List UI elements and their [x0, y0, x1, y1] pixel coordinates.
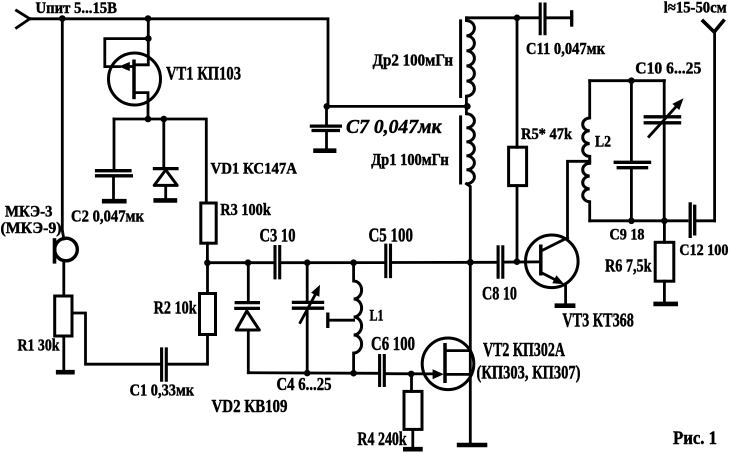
- choke Др2 100мГн: [461, 18, 475, 107]
- node: R4/VT2 gate junction: [408, 371, 415, 378]
- wire: mic to R1: [62, 261, 65, 296]
- node: VT1/C2 rail junction: [145, 116, 152, 123]
- resistor R1: [55, 296, 72, 336]
- transistor VT1 КП103: [105, 18, 161, 120]
- svg-text:R1 30k: R1 30k: [18, 336, 60, 355]
- node: choke midpoint junction: [464, 103, 471, 110]
- node: VD1 junction: [161, 116, 168, 123]
- wire: R1 tap to C1: [72, 313, 160, 364]
- capacitor C9: [614, 81, 652, 221]
- svg-text:(МКЭ-9): (МКЭ-9): [1, 220, 62, 237]
- svg-text:МКЭ-3: МКЭ-3: [5, 204, 53, 221]
- svg-text:Др2 100мГн: Др2 100мГн: [373, 51, 454, 70]
- node: R6 top junction: [661, 218, 668, 225]
- node: C9 bottom junction: [628, 218, 635, 225]
- wire: R2 to mid node: [206, 263, 209, 294]
- antenna: [702, 20, 725, 221]
- choke Др1 100мГн: [461, 106, 475, 184]
- svg-text:C7 0,047мк: C7 0,047мк: [346, 116, 442, 138]
- wire: C7 node to chokes: [328, 105, 468, 108]
- node: supply/VT1 junction: [145, 15, 152, 22]
- resistor R5: [509, 18, 527, 262]
- node: C4 top junction: [304, 259, 311, 266]
- capacitor C2: [95, 119, 133, 199]
- tank bottom rail: [590, 219, 687, 222]
- tank top rail: [590, 79, 665, 82]
- ground under R1: [56, 370, 75, 375]
- svg-text:Рис. 1: Рис. 1: [673, 428, 717, 449]
- svg-text:C9 18: C9 18: [610, 227, 645, 244]
- capacitor C12: [690, 202, 695, 238]
- svg-text:VD2 КВ109: VD2 КВ109: [212, 396, 288, 416]
- trimmer capacitor C10: [644, 81, 684, 221]
- transistor VT2 КП302А: [422, 338, 474, 390]
- wire: mic branch: [62, 19, 64, 239]
- svg-text:C5 100: C5 100: [369, 225, 414, 247]
- svg-text:VD1 КС147А: VD1 КС147А: [211, 161, 298, 178]
- node: supply/mic junction: [59, 15, 66, 22]
- node: C7 junction: [324, 103, 331, 110]
- svg-text:R6 7,5k: R6 7,5k: [605, 256, 652, 276]
- svg-text:VT3 КТ368: VT3 КТ368: [562, 310, 634, 332]
- node: R5 top junction: [514, 14, 521, 21]
- svg-text:R5* 47k: R5* 47k: [521, 126, 572, 143]
- power input arrow: [17, 11, 30, 28]
- node: R5/VT3 base junction: [514, 258, 521, 265]
- ground under C7: [313, 148, 336, 153]
- svg-text:R4 240k: R4 240k: [357, 430, 407, 450]
- svg-text:C10 6...25: C10 6...25: [635, 59, 701, 78]
- ground under R6: [653, 302, 678, 307]
- microphone BM1 МКЭ-3: [55, 238, 78, 261]
- inductor L1 with tap: [328, 263, 362, 373]
- svg-text:R3 100k: R3 100k: [220, 200, 271, 219]
- capacitor C7: [310, 106, 342, 148]
- node: L1 top junction: [350, 259, 357, 266]
- zener diode VD1 КС147А: [153, 119, 179, 198]
- svg-text:(КП303, КП307): (КП303, КП307): [477, 363, 581, 384]
- svg-text:C8 10: C8 10: [482, 284, 517, 305]
- wire: +supply rail with corner down to C7 node: [30, 19, 328, 107]
- node: VD2 junction: [245, 259, 252, 266]
- svg-text:VT1 КП103: VT1 КП103: [166, 64, 241, 85]
- node: rail/mid wire crossing: [467, 259, 474, 266]
- svg-text:C6 100: C6 100: [371, 334, 415, 355]
- capacitor C3: [275, 245, 280, 279]
- wire: VT3 collector to L2 tap: [568, 161, 590, 238]
- wire: right top rail: [466, 16, 538, 19]
- svg-text:R2 10k: R2 10k: [154, 298, 197, 318]
- wire: drain rail (Др1 to VT2 to ground): [466, 184, 470, 442]
- svg-text:Uпит 5...15В: Uпит 5...15В: [36, 0, 118, 17]
- capacitor C6: [380, 354, 385, 387]
- svg-text:C1 0,33мк: C1 0,33мк: [130, 381, 195, 400]
- node: C4 bottom junction: [304, 370, 311, 377]
- svg-text:Др1 100мГн: Др1 100мГн: [371, 150, 449, 169]
- node: L1 bottom junction: [350, 370, 357, 377]
- resistor R3: [201, 203, 216, 243]
- capacitor C11: [540, 3, 545, 36]
- svg-text:C11 0,047мк: C11 0,047мк: [526, 39, 605, 58]
- svg-text:C2 0,047мк: C2 0,047мк: [71, 206, 144, 225]
- capacitor C5: [386, 244, 391, 279]
- svg-text:C12 100: C12 100: [679, 242, 728, 259]
- svg-text:L1: L1: [370, 308, 384, 325]
- wire: C1 to R2: [168, 335, 207, 365]
- resistor R6: [655, 221, 674, 302]
- wire: VT1 lower node rail: [114, 119, 206, 203]
- ground under VT2 rail: [457, 443, 488, 448]
- wire: mid rail (oscillator node): [207, 260, 540, 264]
- node: R2/R3/mid-rail: [204, 260, 211, 267]
- svg-text:C4 6...25: C4 6...25: [277, 374, 332, 394]
- capacitor C1: [162, 347, 167, 381]
- svg-text:C3 10: C3 10: [260, 226, 296, 247]
- ground under C2: [102, 199, 127, 204]
- node: C9 top junction: [628, 77, 635, 84]
- ground under VD1: [153, 198, 177, 203]
- transistor VT3 КТ368: [526, 235, 579, 303]
- wire: bottom audio/gate rail: [248, 373, 431, 374]
- resistor R2: [200, 294, 216, 335]
- wire: R1 to ground: [62, 336, 65, 370]
- inductor L2: [583, 81, 590, 221]
- svg-text:VT2 КП302А: VT2 КП302А: [483, 339, 565, 361]
- svg-text:l≈15-50см: l≈15-50см: [664, 0, 727, 17]
- wire: R3 to mid node: [206, 243, 209, 263]
- ground terminal after C11: [570, 10, 573, 27]
- capacitor C8: [498, 245, 503, 278]
- ground under VT3 emitter: [555, 303, 576, 308]
- ground under R4: [403, 447, 423, 452]
- svg-text:L2: L2: [595, 134, 611, 151]
